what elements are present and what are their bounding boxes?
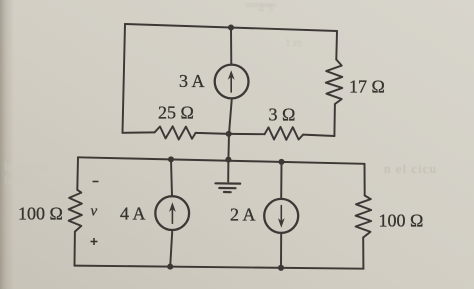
svg-text:v: v — [91, 204, 98, 220]
wire 2A branch lower — [280, 233, 282, 268]
wire bottom of lower loop — [75, 266, 364, 269]
label plus sign — [91, 238, 98, 245]
svg-text:la merma: la merma — [4, 159, 50, 173]
wire 4A branch lower — [170, 230, 172, 267]
label 100 ohm right — [379, 211, 424, 231]
wire middle branch upper — [230, 28, 232, 65]
label 2 A — [230, 205, 256, 225]
svg-text:100 Ω: 100 Ω — [379, 211, 424, 231]
wire 4A branch upper — [171, 159, 172, 196]
wire middle branch to ground node — [227, 134, 230, 160]
wire top of upper loop — [125, 24, 337, 31]
label 3 ohm — [269, 105, 296, 125]
current source 4A arrow — [169, 202, 176, 223]
wire middle branch lower — [229, 99, 232, 134]
svg-text:17 Ω: 17 Ω — [349, 77, 385, 97]
node 2A bottom — [278, 265, 284, 271]
wire right side upper segment — [335, 31, 338, 60]
resistor 3 ohm — [265, 127, 304, 140]
node 4A bottom — [167, 264, 173, 270]
node 4A top — [168, 156, 174, 162]
wire left side of upper loop — [123, 24, 126, 133]
wire 2A branch upper — [280, 162, 282, 199]
label 4 A — [120, 204, 146, 224]
wire left side lower segment of lower loop — [74, 232, 76, 266]
svg-text:n el cicu: n el cicu — [384, 161, 437, 176]
wire bottom-middle-right of upper loop — [229, 133, 265, 135]
svg-text:3 A: 3 A — [179, 71, 205, 91]
wire ground stub — [227, 160, 229, 182]
current source 2A arrow — [278, 206, 285, 228]
resistor 100 ohm left — [69, 190, 82, 232]
current source 3A circle — [215, 65, 249, 99]
wire left side upper segment of lower loop — [76, 157, 79, 190]
label 17 ohm — [349, 77, 385, 97]
current source 4A circle — [155, 196, 189, 230]
label 25 ohm — [158, 103, 194, 123]
label minus sign — [93, 181, 99, 183]
wire top of lower loop — [78, 157, 365, 164]
svg-text:25 Ω: 25 Ω — [158, 103, 194, 123]
ground symbol — [216, 183, 241, 192]
svg-text:4 A: 4 A — [120, 204, 146, 224]
node top middle — [228, 24, 234, 30]
svg-text:lados: lados — [4, 173, 30, 187]
current source 3A arrow — [228, 70, 235, 92]
label 3 A — [179, 71, 205, 91]
wire bottom-middle-left of upper loop — [196, 133, 229, 134]
node ground junction — [225, 157, 231, 163]
current source 2A circle — [264, 199, 298, 233]
svg-text:100 Ω: 100 Ω — [18, 204, 63, 224]
svg-text:1 m: 1 m — [285, 37, 302, 49]
node bottom middle of upper loop — [226, 131, 232, 137]
wire bottom-left of upper loop — [123, 131, 155, 133]
resistor 25 ohm — [155, 126, 196, 139]
resistor 17 ohm — [326, 60, 343, 105]
node 2A top — [278, 159, 284, 165]
wire bottom-right of upper loop — [303, 135, 334, 136]
wire right side upper segment of lower loop — [364, 164, 366, 196]
wire right side lower segment — [333, 104, 336, 136]
label 100 ohm left — [18, 204, 63, 224]
svg-text:2 A: 2 A — [230, 205, 256, 225]
label v — [91, 204, 98, 220]
resistor 100 ohm right — [356, 196, 372, 238]
svg-text:3 Ω: 3 Ω — [269, 105, 296, 125]
wire right side lower segment of lower loop — [362, 238, 364, 269]
